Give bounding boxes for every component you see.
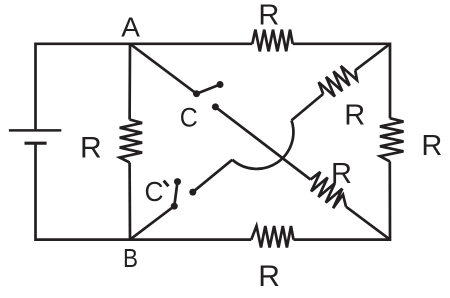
svg-text:R: R (421, 130, 442, 162)
wire node A down to resistor (128, 44, 131, 120)
wire node B to switch C` pivot (130, 206, 174, 240)
svg-text:R: R (80, 131, 102, 164)
switch C lever (197, 85, 221, 94)
wire top edge left (corner to node A) (36, 44, 131, 130)
wire diagonal resistor to TR corner (355, 44, 390, 71)
battery short plate (25, 142, 47, 145)
wire node A to switch C pivot (130, 44, 197, 94)
svg-text:R: R (344, 100, 365, 132)
svg-text:C: C (180, 103, 198, 133)
resistor R diagonal lower (to BR corner) (311, 172, 347, 208)
switch C` fixed contact dot (189, 189, 196, 196)
svg-text:B: B (123, 243, 138, 273)
svg-text:C: C (145, 176, 164, 207)
svg-text:A: A (121, 12, 140, 43)
wire top edge (node A to top resistor) (130, 42, 252, 45)
wire hop arc over diagonal 1 (232, 120, 293, 168)
wire top edge right (resistor to TR corner) + right edge down to resistor (293, 44, 390, 118)
wire switch C contact to diagonal resistor (215, 107, 310, 180)
wire diagonal resistor to BR corner (346, 207, 390, 240)
resistor R bottom (251, 226, 293, 248)
resistor R middle (between A and B) (120, 120, 142, 163)
switch C` lever (174, 182, 177, 207)
svg-text:R: R (258, 0, 279, 31)
wire right edge lower + bottom edge right (294, 161, 391, 239)
wire switch C` contact to hop arc (193, 160, 233, 192)
wire hop arc to diagonal resistor (292, 94, 324, 121)
switch C fixed contact dot (212, 103, 219, 110)
resistor R top (252, 30, 292, 52)
svg-text:R: R (331, 158, 352, 190)
switch C` pivot dot (171, 203, 178, 210)
wire resistor down to node B (128, 163, 131, 240)
label C` backtick (164, 181, 169, 187)
switch C` lever tip dot (174, 178, 181, 185)
switch C lever tip dot (217, 81, 224, 88)
svg-text:R: R (258, 260, 280, 293)
resistor R diagonal upper (to TR corner) (319, 66, 357, 97)
switch C pivot dot (193, 90, 200, 97)
resistor R right (380, 118, 404, 161)
wire bottom edge (resistor to node B to BL corner) (36, 144, 252, 239)
battery long plate (9, 129, 61, 132)
